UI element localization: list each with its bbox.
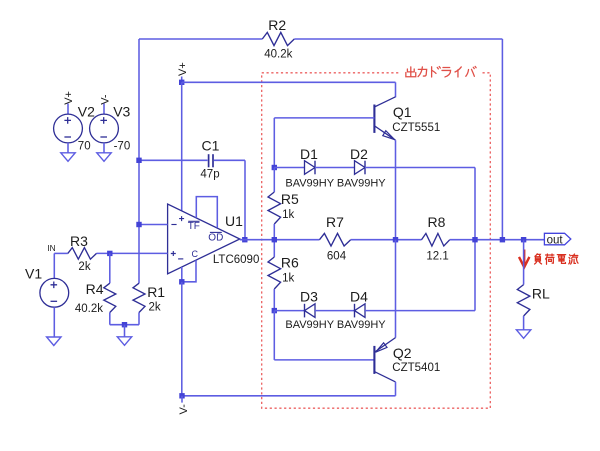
label 47p bbox=[200, 168, 219, 180]
wire bbox=[67, 143, 69, 153]
label 1k bbox=[282, 273, 294, 285]
node diode-string junction bbox=[472, 237, 477, 242]
diode D4 bbox=[355, 304, 366, 318]
wire bbox=[274, 359, 374, 361]
node out junction bbox=[521, 237, 526, 242]
label R5 bbox=[281, 191, 299, 207]
net flag V- bbox=[99, 94, 111, 114]
svg-text:V-: V- bbox=[99, 94, 111, 105]
svg-text:D2: D2 bbox=[350, 146, 368, 162]
svg-text:LTC6090: LTC6090 bbox=[213, 254, 259, 266]
wire bbox=[53, 307, 55, 337]
wire bbox=[523, 316, 525, 330]
resistor R8 bbox=[422, 233, 450, 246]
node emitters junction bbox=[393, 237, 398, 242]
svg-text:47p: 47p bbox=[200, 168, 219, 180]
svg-text:V1: V1 bbox=[25, 266, 42, 282]
wire bbox=[182, 260, 196, 282]
diode D1 bbox=[305, 161, 316, 175]
svg-text:2k: 2k bbox=[78, 261, 90, 273]
wire bbox=[273, 168, 275, 193]
wire bbox=[103, 143, 105, 153]
capacitor C1 bbox=[209, 154, 213, 167]
wire bbox=[365, 310, 475, 312]
svg-text:C1: C1 bbox=[202, 138, 220, 154]
pin TF label bbox=[188, 221, 200, 232]
label R2 bbox=[268, 17, 286, 33]
label LTC6090 bbox=[213, 254, 259, 266]
net flag V- bbox=[178, 404, 190, 415]
svg-text:1k: 1k bbox=[282, 273, 294, 285]
svg-text:BAV99HY BAV99HY: BAV99HY BAV99HY bbox=[285, 177, 386, 189]
node U1 V- junction bbox=[179, 279, 184, 284]
svg-text:CZT5401: CZT5401 bbox=[392, 362, 440, 374]
wire bbox=[274, 310, 304, 312]
label D2 bbox=[350, 146, 368, 162]
label D1 bbox=[300, 146, 318, 162]
label 1k bbox=[282, 209, 294, 221]
wire bbox=[240, 239, 320, 241]
voltage source V1 bbox=[40, 278, 69, 307]
wire bbox=[214, 159, 245, 161]
label V2 bbox=[78, 104, 95, 120]
pin C label bbox=[192, 249, 199, 259]
label -70 bbox=[114, 141, 131, 153]
svg-text:RL: RL bbox=[532, 286, 550, 302]
wire bbox=[196, 197, 217, 228]
svg-text:TF: TF bbox=[188, 221, 200, 232]
wire bbox=[273, 311, 275, 360]
wire bbox=[182, 81, 396, 83]
wire bbox=[244, 160, 246, 239]
label R3 bbox=[70, 233, 88, 249]
svg-text:IN: IN bbox=[47, 243, 55, 253]
label R6 bbox=[281, 255, 299, 271]
svg-text:604: 604 bbox=[327, 251, 347, 263]
resistor R1 bbox=[133, 283, 145, 312]
node D1 junction bbox=[272, 165, 277, 170]
ground bbox=[117, 337, 131, 346]
label R8 bbox=[428, 214, 446, 230]
node inverting-input junction bbox=[136, 222, 141, 227]
wire bbox=[181, 396, 183, 403]
ground bbox=[516, 330, 530, 339]
svg-text:CZT5551: CZT5551 bbox=[392, 122, 440, 134]
node A junction bbox=[272, 237, 277, 242]
label RL bbox=[532, 286, 550, 302]
label 70 bbox=[78, 141, 91, 153]
wire bbox=[315, 310, 355, 312]
svg-text:V-: V- bbox=[178, 404, 190, 415]
wire bbox=[395, 82, 397, 97]
wire bbox=[294, 38, 502, 40]
label Q2 bbox=[393, 345, 412, 361]
wire bbox=[124, 325, 126, 337]
svg-text:V+: V+ bbox=[63, 91, 75, 105]
wire bbox=[273, 240, 275, 257]
wire bbox=[351, 239, 422, 241]
svg-text:R8: R8 bbox=[428, 214, 446, 230]
transistor Q1 bbox=[374, 97, 395, 140]
label IN bbox=[47, 243, 55, 253]
op-amp noninverting input marker bbox=[171, 251, 176, 256]
output driver dashed box bbox=[262, 64, 491, 408]
wire bbox=[523, 240, 525, 285]
label R1 bbox=[147, 284, 165, 300]
label 2k bbox=[149, 302, 161, 314]
label BAV99HY BAV99HY bbox=[285, 319, 386, 331]
wire bbox=[138, 313, 140, 325]
svg-text:D3: D3 bbox=[300, 289, 318, 305]
op-amp V+ marker bbox=[179, 216, 184, 221]
svg-text:BAV99HY BAV99HY: BAV99HY BAV99HY bbox=[285, 319, 386, 331]
wire bbox=[139, 38, 262, 40]
wire bbox=[54, 252, 68, 254]
label V1 bbox=[25, 266, 42, 282]
svg-text:R2: R2 bbox=[268, 17, 286, 33]
wire bbox=[139, 224, 168, 226]
diode D3 bbox=[305, 304, 316, 318]
svg-text:12.1: 12.1 bbox=[426, 251, 448, 263]
label D3 bbox=[300, 289, 318, 305]
svg-text:V2: V2 bbox=[78, 104, 95, 120]
svg-text:D4: D4 bbox=[350, 289, 368, 305]
op-amp V- marker bbox=[178, 258, 183, 260]
wire bbox=[395, 382, 397, 396]
voltage source V2 bbox=[54, 114, 83, 143]
wire bbox=[274, 167, 304, 169]
resistor RL bbox=[517, 285, 530, 316]
svg-text:R5: R5 bbox=[281, 191, 299, 207]
svg-text:-70: -70 bbox=[114, 141, 131, 153]
svg-text:V3: V3 bbox=[113, 104, 130, 120]
op-amp U1 triangle bbox=[168, 204, 240, 274]
resistor R4 bbox=[104, 283, 116, 312]
port out bbox=[544, 233, 570, 246]
label V3 bbox=[113, 104, 130, 120]
svg-text:70: 70 bbox=[78, 141, 91, 153]
ground bbox=[61, 153, 75, 162]
ground bbox=[47, 337, 61, 346]
ground bbox=[97, 153, 111, 162]
pin OD label bbox=[208, 232, 223, 243]
resistor R6 bbox=[268, 257, 281, 289]
wire bbox=[395, 240, 397, 338]
wire bbox=[395, 140, 397, 240]
wire bbox=[109, 313, 111, 325]
svg-text:C: C bbox=[192, 249, 199, 259]
load current arrow bbox=[519, 250, 529, 268]
wire bbox=[273, 224, 275, 240]
svg-text:1k: 1k bbox=[282, 209, 294, 221]
label CZT5551 bbox=[392, 122, 440, 134]
svg-text:40.2k: 40.2k bbox=[264, 49, 292, 61]
label CZT5401 bbox=[392, 362, 440, 374]
label 40.2k bbox=[75, 303, 103, 315]
label R7 bbox=[326, 214, 344, 230]
svg-text:U1: U1 bbox=[225, 213, 243, 229]
svg-text:40.2k: 40.2k bbox=[75, 303, 103, 315]
svg-text:R7: R7 bbox=[326, 214, 344, 230]
node C1-left junction bbox=[136, 158, 141, 163]
label 40.2k bbox=[264, 49, 292, 61]
wire bbox=[181, 282, 183, 396]
node V+ junction bbox=[179, 80, 184, 85]
net flag V+ bbox=[177, 62, 189, 82]
wire bbox=[501, 39, 503, 240]
node V- junction bbox=[179, 393, 184, 398]
svg-text:Q2: Q2 bbox=[393, 345, 412, 361]
resistor R3 bbox=[68, 248, 97, 260]
node feedback junction bbox=[500, 237, 505, 242]
node R3 output junction bbox=[107, 251, 112, 256]
wire bbox=[109, 253, 111, 283]
resistor R5 bbox=[268, 192, 281, 224]
label 出力ドライバ (output driver title) bbox=[406, 66, 476, 77]
svg-text:R1: R1 bbox=[147, 284, 165, 300]
wire bbox=[450, 239, 545, 241]
svg-text:Q1: Q1 bbox=[393, 104, 412, 120]
wire bbox=[273, 289, 275, 311]
node U1 output junction bbox=[242, 237, 247, 242]
svg-text:OD: OD bbox=[208, 233, 223, 244]
resistor R7 bbox=[320, 233, 351, 246]
wire bbox=[139, 159, 208, 161]
label U1 bbox=[225, 213, 243, 229]
label BAV99HY BAV99HY bbox=[285, 177, 386, 189]
wire bbox=[97, 252, 168, 254]
node R4-R1 ground junction bbox=[122, 322, 127, 327]
wire bbox=[53, 253, 55, 278]
svg-text:V+: V+ bbox=[177, 62, 189, 76]
wire bbox=[181, 82, 183, 210]
label Q1 bbox=[393, 104, 412, 120]
resistor R2 bbox=[262, 32, 294, 45]
voltage source V3 bbox=[90, 114, 119, 143]
svg-text:2k: 2k bbox=[149, 302, 161, 314]
label 2k bbox=[78, 261, 90, 273]
svg-text:R3: R3 bbox=[70, 233, 88, 249]
wire bbox=[182, 395, 396, 397]
svg-text:out: out bbox=[547, 234, 564, 246]
svg-text:D1: D1 bbox=[300, 146, 318, 162]
label 12.1 bbox=[426, 251, 448, 263]
wire bbox=[138, 39, 140, 283]
transistor Q2 bbox=[374, 338, 395, 382]
label D4 bbox=[350, 289, 368, 305]
wire bbox=[110, 324, 139, 326]
diode D2 bbox=[355, 161, 366, 175]
label C1 bbox=[202, 138, 220, 154]
net flag V+ bbox=[63, 91, 75, 114]
wire bbox=[274, 117, 374, 119]
op-amp inverting input marker bbox=[171, 224, 176, 226]
label 604 bbox=[327, 251, 347, 263]
wire bbox=[315, 167, 355, 169]
label 負荷電流 (load current) bbox=[535, 254, 578, 264]
svg-text:R6: R6 bbox=[281, 255, 299, 271]
wire bbox=[181, 267, 183, 282]
wire bbox=[365, 167, 475, 169]
label R4 bbox=[86, 281, 104, 297]
wire bbox=[474, 168, 476, 311]
svg-text:R4: R4 bbox=[86, 281, 104, 297]
node D3 junction bbox=[272, 308, 277, 313]
wire bbox=[273, 118, 275, 168]
